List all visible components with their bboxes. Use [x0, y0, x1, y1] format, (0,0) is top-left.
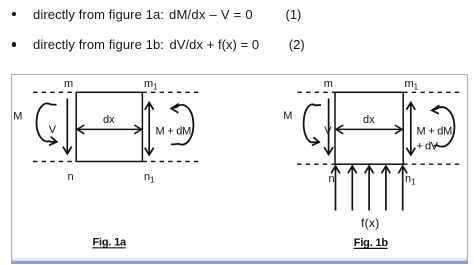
dx right arrowhead (fig 1b) — [395, 125, 402, 134]
svg-text:Fig. 1a: Fig. 1a — [93, 237, 128, 249]
bottom dashed line left (fig 1b) — [297, 163, 335, 165]
distributed load arrow 3 — [368, 167, 370, 211]
svg-text:dx: dx — [103, 114, 115, 126]
beam element rectangle (fig 1b) — [335, 92, 403, 164]
svg-text:n1: n1 — [144, 171, 155, 185]
top arrowhead (fig 1b right) — [406, 103, 415, 110]
svg-text:m: m — [324, 78, 333, 90]
bottom arrowhead (fig 1a right) — [145, 148, 154, 155]
bullet 1 — [12, 12, 16, 16]
beam element rectangle (fig 1a) — [76, 92, 142, 161]
top dashed line right (fig 1b) — [403, 91, 460, 93]
svg-text:M + dM: M + dM — [156, 126, 192, 138]
equation 1 formula dM/dx - V = 0 — [169, 8, 253, 21]
svg-text:n1: n1 — [405, 173, 416, 187]
svg-text:m1: m1 — [144, 78, 158, 92]
bullet 2 — [12, 42, 16, 46]
dx left arrowhead (fig 1a) — [77, 125, 84, 134]
svg-text:n: n — [329, 173, 335, 185]
dx dimension arrow (fig 1b) — [337, 128, 401, 130]
svg-text:dx: dx — [363, 114, 375, 126]
shear arrow V (fig 1a) — [66, 99, 68, 153]
svg-text:V: V — [49, 124, 57, 136]
moment arc M (fig 1b) — [304, 104, 321, 142]
equation 2 formula dV/dx + f(x) = 0 — [170, 38, 260, 51]
arrowhead of V (fig 1b) — [324, 147, 333, 154]
top arrowhead (fig 1a right) — [145, 103, 154, 110]
arrowhead of moment arc M (fig 1a) — [49, 137, 57, 146]
distributed load arrow 1 — [335, 167, 337, 211]
top dashed line left (fig 1a) — [33, 91, 76, 93]
svg-text:m1: m1 — [405, 78, 419, 92]
moment arc M+dM (fig 1b) — [432, 107, 455, 147]
moment arc M (fig 1a) — [37, 103, 57, 142]
equation number (2) — [289, 38, 305, 51]
top dashed line left (fig 1b) — [298, 91, 336, 93]
equation number (1) — [286, 8, 302, 21]
bottom dashed line right (fig 1b) — [403, 163, 460, 165]
distributed load arrow 5 — [402, 167, 404, 211]
bottom arrowhead (fig 1b right) — [406, 148, 415, 155]
shear double arrow V (fig 1a right) — [148, 104, 150, 155]
equation text line 2 — [33, 38, 164, 51]
figure frame box — [11, 74, 468, 265]
svg-text:n: n — [68, 171, 74, 183]
arrowhead of moment arc M+dM (fig 1b) — [432, 105, 440, 114]
dx dimension arrow (fig 1a) — [78, 128, 141, 130]
underline of caption Fig. 1a — [92, 247, 126, 249]
arrowhead of moment arc M+dM (fig 1a) — [171, 104, 179, 113]
shear arrow V (fig 1b) — [328, 99, 330, 154]
underline of caption Fig. 1b — [354, 247, 388, 249]
svg-text:f(x): f(x) — [361, 216, 380, 230]
svg-text:Fig. 1b: Fig. 1b — [354, 237, 389, 249]
arrowhead of moment arc M (fig 1b) — [312, 137, 319, 145]
svg-text:M: M — [13, 111, 22, 123]
shear double arrow V+dV (fig 1b right) — [410, 104, 412, 155]
svg-text:M: M — [283, 110, 292, 122]
bottom dashed line left (fig 1a) — [33, 161, 76, 163]
top dashed line right (fig 1a) — [142, 91, 200, 93]
bottom dashed line right (fig 1a) — [142, 161, 201, 163]
distributed load arrow 4 — [385, 167, 387, 211]
equation text line 1 — [33, 8, 164, 21]
distributed load arrow 2 — [351, 167, 353, 211]
svg-text:M + dM: M + dM — [417, 126, 453, 138]
svg-text:m: m — [64, 78, 73, 90]
arrowhead of V (fig 1a) — [63, 147, 72, 154]
dx left arrowhead (fig 1b) — [336, 125, 343, 134]
moment arc M+dM (fig 1a) — [171, 105, 194, 145]
dx right arrowhead (fig 1a) — [134, 125, 141, 134]
